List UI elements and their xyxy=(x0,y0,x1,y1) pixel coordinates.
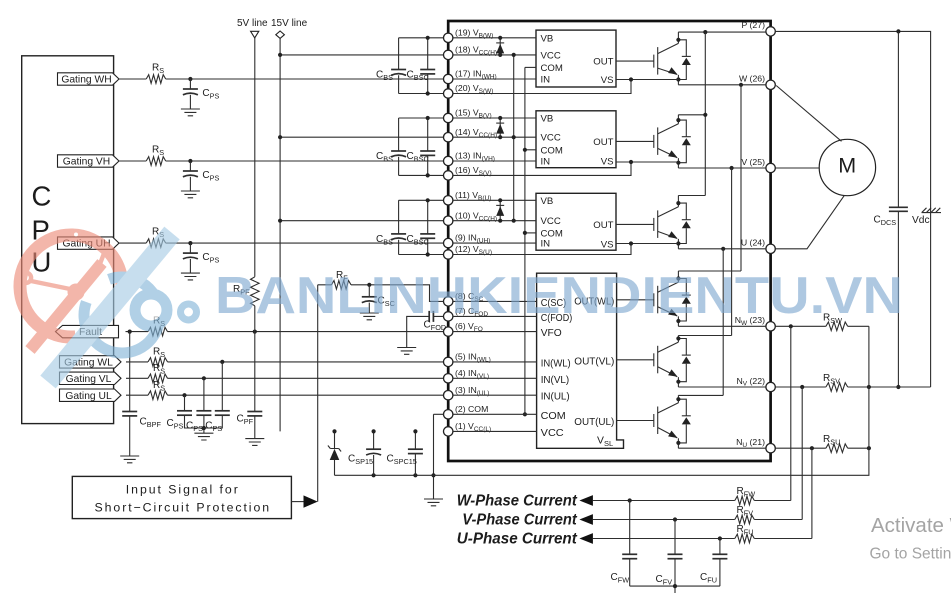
logo blue slash xyxy=(48,233,172,382)
capacitor CFOD xyxy=(429,311,433,322)
pin (6) VFO xyxy=(444,327,453,336)
wire driver pins U-drv-UH xyxy=(453,200,536,243)
pin (1) VCC(L) xyxy=(444,427,453,436)
svg-text:Gating WH: Gating WH xyxy=(61,75,111,86)
svg-text:V (25): V (25) xyxy=(741,157,765,167)
pin (2) COM xyxy=(444,410,453,419)
resistor RFW xyxy=(593,500,791,502)
node U-Phase Current arrow xyxy=(579,533,593,544)
resistor RSV xyxy=(775,386,930,388)
pin (5) IN(WL) xyxy=(444,357,453,366)
svg-text:M: M xyxy=(838,153,856,177)
svg-text:U-Phase Current: U-Phase Current xyxy=(457,530,578,547)
svg-text:OUT(UL): OUT(UL) xyxy=(574,417,614,428)
pin (7) CFOD xyxy=(444,312,453,321)
wire SC input vertical xyxy=(317,285,319,502)
svg-text:OUT(VL): OUT(VL) xyxy=(574,357,614,368)
capacitor CBS (W) xyxy=(398,38,400,94)
node Gating UH xyxy=(58,237,120,249)
wire U sense drop xyxy=(811,448,813,538)
svg-text:VCC: VCC xyxy=(541,216,561,227)
transistor Q6 (UL) xyxy=(654,395,691,448)
watermark logo xyxy=(20,230,201,383)
wire input arrow xyxy=(291,501,303,503)
node Gating WL xyxy=(60,356,122,368)
svg-text:BANLINHKIENDIENTU.VN: BANLINHKIENDIENTU.VN xyxy=(215,267,903,325)
logo blue donut small xyxy=(177,300,201,324)
diode DZ zener xyxy=(334,431,336,448)
capacitor CBSC (W) xyxy=(427,38,429,94)
diode D-boot-V xyxy=(499,118,501,137)
wire P drop to collectors xyxy=(678,32,705,195)
svg-text:VCC: VCC xyxy=(541,133,561,144)
wire OUT gate leads xyxy=(616,60,654,62)
svg-text:Vdc: Vdc xyxy=(912,215,930,226)
capacitor CBPF xyxy=(129,332,131,412)
wire U to motor xyxy=(775,195,844,249)
logo red pad on ring top xyxy=(71,230,81,240)
ground Vdc symbol xyxy=(922,208,940,213)
pin (15) VB(V) xyxy=(444,113,453,122)
logo red slash xyxy=(30,263,102,350)
svg-text:VS: VS xyxy=(601,240,614,251)
svg-text:Gating VL: Gating VL xyxy=(66,374,112,385)
capacitor CSC xyxy=(368,285,370,297)
wire 5V rail xyxy=(254,38,256,412)
pin (17) IN(WH) xyxy=(444,74,453,83)
wire VCC internal rail xyxy=(513,55,515,221)
resistor RS xyxy=(148,358,168,367)
node Input Signal box xyxy=(72,476,291,518)
wire 15V branch to pin18 xyxy=(280,54,444,56)
svg-text:VS: VS xyxy=(601,75,614,86)
pin (3) IN(UL) xyxy=(444,391,453,400)
wire VB line pin to CBS group (U) xyxy=(399,200,444,254)
wire 15V branch to pin10 xyxy=(280,220,444,222)
op-amp U-drv-WH driver box xyxy=(536,30,616,87)
wire VS return y=162.0 xyxy=(453,162,679,175)
capacitor CPS (UL) xyxy=(184,395,186,411)
capacitor CPS on line y=161.0 xyxy=(188,159,192,163)
wire COM internal rail xyxy=(524,67,526,414)
transistor Q2 (VH) xyxy=(654,115,691,168)
wire VB line pin to CBS group (W) xyxy=(399,38,444,94)
op-amp U-drv-VH driver box xyxy=(536,111,616,168)
svg-text:OUT: OUT xyxy=(593,57,613,68)
wire U phase line xyxy=(678,248,766,250)
wire V sense drop xyxy=(801,387,803,520)
wire W phase line xyxy=(678,84,766,86)
svg-text:IN: IN xyxy=(541,157,551,168)
pin (14) VCC(H) xyxy=(444,133,453,142)
logo red node 2 xyxy=(70,286,82,298)
op-amp U-drv-low block xyxy=(537,273,624,448)
wire gating low line y=361.9 xyxy=(126,361,444,363)
wire CPS bottom bus + ground xyxy=(185,415,223,433)
capacitor CFV xyxy=(674,520,676,593)
pin V (25) xyxy=(766,163,775,172)
pin (10) VCC(H) xyxy=(444,216,453,225)
node Fault xyxy=(56,325,119,337)
svg-text:Gating UL: Gating UL xyxy=(65,391,112,402)
wire gating line y=79.0 xyxy=(119,78,444,80)
pin NW xyxy=(766,322,775,331)
wire NW line xyxy=(678,325,766,327)
IPM module outline xyxy=(448,21,770,461)
svg-text:OUT: OUT xyxy=(593,220,613,231)
transistor Q3 (UH) xyxy=(654,196,691,249)
capacitor CFU xyxy=(719,539,721,587)
diode D-boot-U xyxy=(499,200,501,220)
resistor RSW xyxy=(775,325,869,327)
svg-text:VB: VB xyxy=(541,114,554,125)
wire V drop to low collector xyxy=(678,168,731,336)
capacitor CPS on line y=243.1 xyxy=(188,241,192,245)
wire V to motor xyxy=(775,167,819,169)
svg-text:U (24): U (24) xyxy=(741,238,765,248)
svg-text:COM: COM xyxy=(541,63,563,74)
capacitor CPS on line y=79.0 xyxy=(188,77,192,81)
node Gating UL xyxy=(60,389,122,401)
svg-text:C: C xyxy=(32,181,52,212)
node Gating VH xyxy=(58,155,120,167)
logo red ring xyxy=(20,235,122,337)
pin (4) IN(VL) xyxy=(444,374,453,383)
wire NV line xyxy=(678,386,766,388)
svg-text:VB: VB xyxy=(541,196,554,207)
wire V phase line xyxy=(678,167,766,169)
wire CF bottom bus xyxy=(630,585,720,587)
svg-text:IN(UL): IN(UL) xyxy=(541,392,570,403)
wire fault line xyxy=(126,331,444,333)
svg-text:IN(VL): IN(VL) xyxy=(541,375,570,386)
transistor Q1 (WH) xyxy=(654,32,691,85)
capacitor CBSC (V) xyxy=(427,118,429,175)
wire W sense drop xyxy=(790,326,792,500)
logo blue ring xyxy=(84,277,160,353)
pin (9) IN(UH) xyxy=(444,238,453,247)
pin (13) IN(VH) xyxy=(444,156,453,165)
wire gating line y=243.1 xyxy=(119,242,444,244)
pin P (27) xyxy=(766,27,775,36)
capacitor CSP15 xyxy=(373,431,375,449)
resistor RS xyxy=(148,391,168,400)
resistor RS xyxy=(146,75,166,84)
capacitor CSPC15 xyxy=(414,431,416,449)
svg-text:VFO: VFO xyxy=(541,328,562,339)
capacitor CPF xyxy=(247,411,262,413)
svg-text:Go to Setting: Go to Setting xyxy=(870,546,951,563)
node W-Phase Current arrow xyxy=(579,495,593,506)
wire VS return y=79.5 xyxy=(453,80,679,94)
pin W (26) xyxy=(766,80,775,89)
capacitor CBS (V) xyxy=(398,118,400,175)
node Gating VL xyxy=(60,372,122,384)
op-amp U-drv-UH driver box xyxy=(536,193,616,250)
capacitor CBS (U) xyxy=(398,200,400,254)
wire VB line pin to CBS group (V) xyxy=(399,118,444,175)
wire 15V branch to pin14 xyxy=(280,136,444,138)
svg-text:VCC: VCC xyxy=(541,50,561,61)
capacitor CDCS xyxy=(897,31,899,387)
svg-text:OUT: OUT xyxy=(593,137,613,148)
pin (8) CSC xyxy=(444,297,453,306)
pin U (24) xyxy=(766,244,775,253)
svg-text:W (26): W (26) xyxy=(739,74,765,84)
wire U drop to low collector xyxy=(678,249,723,396)
wire 15V rail xyxy=(279,38,281,431)
svg-text:V-Phase Current: V-Phase Current xyxy=(462,511,577,528)
capacitor CPS (VL) xyxy=(203,378,205,411)
pin (16) VS(V) xyxy=(444,171,453,180)
resistor RF xyxy=(318,285,444,302)
resistor RPF xyxy=(251,277,260,306)
wire pin2 COM xyxy=(434,414,537,499)
svg-text:IN: IN xyxy=(541,75,551,86)
capacitor CPS (WL) xyxy=(221,362,223,411)
resistor RS fault xyxy=(148,327,168,336)
svg-text:(2) COM: (2) COM xyxy=(455,404,488,414)
svg-text:P (27): P (27) xyxy=(741,20,765,30)
wire P line to rail xyxy=(775,31,930,387)
transistor Q4 (WL) xyxy=(654,271,691,326)
logo red node 1 xyxy=(21,273,31,283)
wire lower block pin lines xyxy=(433,301,536,431)
capacitor CFW xyxy=(629,501,631,587)
pin NU xyxy=(766,444,775,453)
node Gating WH xyxy=(58,73,120,85)
CPU block xyxy=(22,56,114,424)
svg-text:Activate W: Activate W xyxy=(871,514,951,537)
wire P rail xyxy=(678,31,766,33)
svg-text:IN: IN xyxy=(541,239,551,250)
resistor RFV xyxy=(593,519,802,521)
svg-text:COM: COM xyxy=(541,411,566,422)
wire W drop to low collector xyxy=(678,85,741,271)
motor M xyxy=(819,139,875,195)
svg-text:W-Phase Current: W-Phase Current xyxy=(457,492,578,509)
wire driver pins U-drv-VH xyxy=(453,118,536,161)
wire VS return y=243.5 xyxy=(453,244,679,255)
pin (20) VS(W) xyxy=(444,89,453,98)
pin (18) VCC(H) xyxy=(444,50,453,59)
svg-text:COM: COM xyxy=(541,145,563,156)
svg-text:VCC: VCC xyxy=(541,428,565,439)
wire W to motor xyxy=(776,86,841,142)
pin (12) VS(U) xyxy=(444,250,453,259)
svg-text:VS: VS xyxy=(601,157,614,168)
svg-text:5V line: 5V line xyxy=(237,18,268,29)
logo blue donut large xyxy=(130,289,172,331)
wire gating low line y=378.3 xyxy=(126,377,444,379)
svg-text:15V line: 15V line xyxy=(271,18,308,29)
wire NU line xyxy=(678,447,766,449)
resistor RFU xyxy=(593,538,812,540)
resistor RS xyxy=(146,239,166,248)
diode D-boot-W xyxy=(499,38,501,55)
pin (19) VB(W) xyxy=(444,33,453,42)
wire gating line y=161.0 xyxy=(119,160,444,162)
resistor RS xyxy=(146,157,166,166)
resistor RS xyxy=(148,374,168,383)
wire driver pins U-drv-WH xyxy=(453,38,536,79)
wire gating low line y=395.2 xyxy=(126,394,444,396)
wire DC- vertical + common rail xyxy=(335,326,869,475)
capacitor CBSC (U) xyxy=(427,200,429,254)
pin NV xyxy=(766,382,775,391)
svg-text:VB: VB xyxy=(541,33,554,44)
node V-Phase Current arrow xyxy=(579,514,593,525)
resistor RSU xyxy=(775,447,869,449)
pin (11) VB(U) xyxy=(444,196,453,205)
svg-text:IN(WL): IN(WL) xyxy=(541,358,571,369)
transistor Q5 (VL) xyxy=(654,336,691,388)
svg-text:Gating VH: Gating VH xyxy=(63,157,111,168)
